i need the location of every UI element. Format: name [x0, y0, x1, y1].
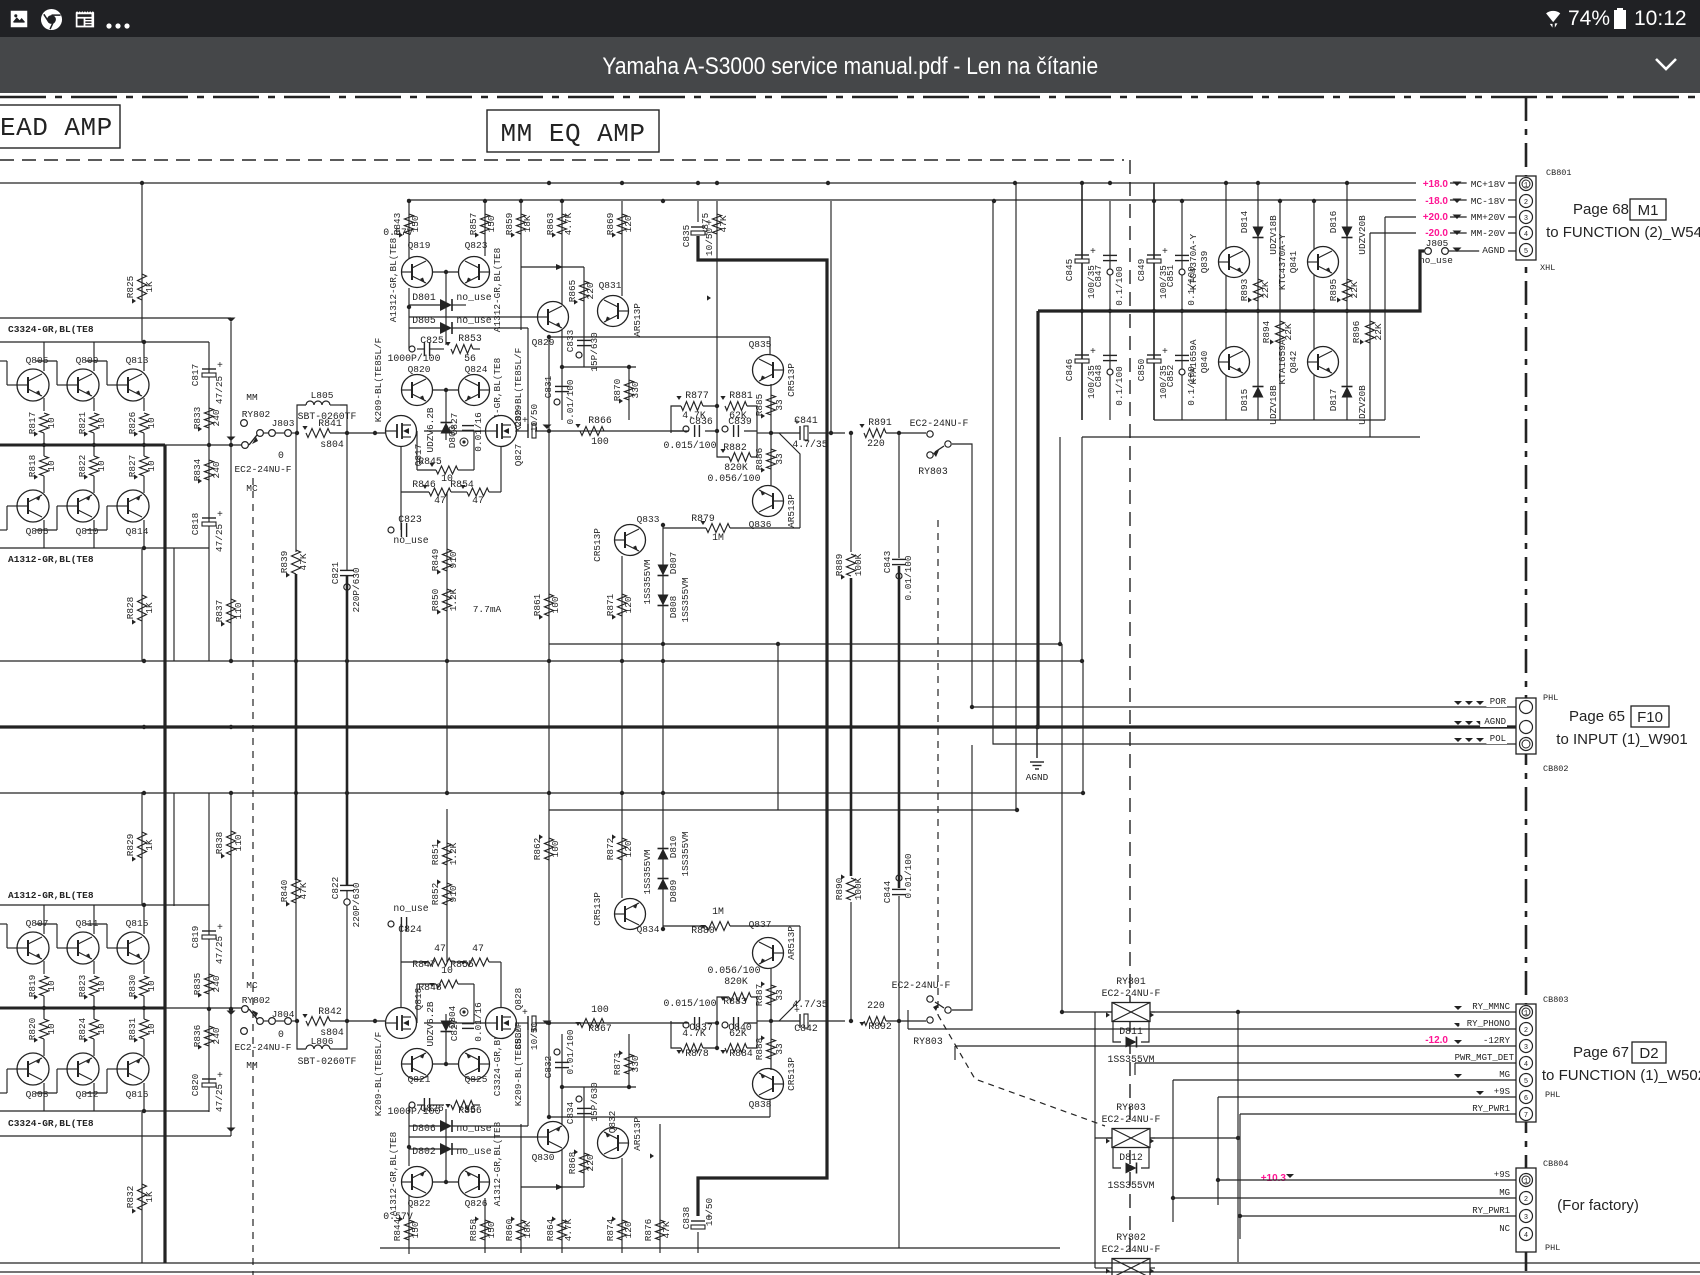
svg-text:C822: C822 — [330, 877, 341, 900]
svg-text:Q834: Q834 — [637, 924, 660, 935]
junction — [1224, 309, 1228, 313]
svg-text:56: 56 — [464, 1104, 476, 1115]
battery percent — [1568, 7, 1610, 31]
junction — [661, 199, 665, 203]
transistor Q806 — [17, 490, 49, 522]
svg-text:R859: R859 — [504, 213, 515, 236]
svg-text:D810: D810 — [668, 835, 679, 858]
svg-text:10/50: 10/50 — [529, 1022, 540, 1051]
svg-text:0.01/16: 0.01/16 — [473, 412, 484, 452]
svg-text:D817: D817 — [1328, 389, 1339, 412]
capacitor C839 — [733, 425, 735, 437]
left block top rail — [0, 341, 209, 343]
svg-text:RY_MMNC: RY_MMNC — [1472, 1002, 1510, 1012]
svg-text:R832: R832 — [125, 1186, 136, 1209]
svg-text:POL: POL — [1490, 734, 1506, 744]
svg-text:Q830: Q830 — [532, 1152, 555, 1163]
svg-text:no_use: no_use — [456, 1146, 491, 1157]
resistor R837 110 — [227, 599, 236, 623]
left block bottom rail — [0, 547, 209, 549]
svg-text:0.01/100: 0.01/100 — [903, 555, 914, 600]
svg-text:0.015/100: 0.015/100 — [664, 440, 717, 451]
svg-text:PHL: PHL — [1545, 1243, 1560, 1253]
svg-text:C849: C849 — [1136, 259, 1147, 282]
diode D806 no_use — [440, 1120, 452, 1132]
svg-text:Q825: Q825 — [465, 1074, 488, 1085]
svg-text:MM EQ AMP: MM EQ AMP — [501, 119, 646, 149]
CB801 pin 2 MC-18V — [1520, 195, 1533, 208]
junction — [547, 181, 551, 185]
resistor R893 22K — [1254, 279, 1263, 301]
wire x1082 lower — [1081, 437, 1083, 661]
transistor Q835 CR513P — [753, 355, 784, 386]
svg-text:47K: 47K — [661, 1221, 672, 1238]
transistor Q826 — [459, 1167, 490, 1198]
svg-text:4: 4 — [1524, 1232, 1528, 1240]
resistor R832 1K — [141, 1112, 143, 1263]
svg-text:R860: R860 — [504, 1218, 515, 1241]
svg-text:C839: C839 — [728, 416, 752, 427]
capacitor C844 0.01/100 — [898, 896, 900, 1021]
junction — [1312, 199, 1316, 203]
svg-text:C829: C829 — [513, 405, 524, 428]
svg-text:F10: F10 — [1637, 709, 1663, 726]
resistor R843 150 — [405, 214, 414, 234]
diode D809 1SS355VM — [662, 793, 664, 929]
svg-text:1.2K: 1.2K — [448, 842, 459, 865]
wire MM feed — [0, 317, 231, 319]
resistor R888 33 — [770, 968, 772, 1070]
svg-text:1K: 1K — [144, 1191, 155, 1203]
MM EQ AMP title box — [487, 110, 659, 152]
fet Q818 K209 — [386, 1008, 417, 1039]
svg-text:Page 67: Page 67 — [1573, 1044, 1629, 1061]
resistor R877 4.7K — [681, 402, 703, 411]
android status bar — [0, 0, 1700, 37]
junction — [826, 181, 830, 185]
wire MM feed lower — [0, 1135, 231, 1137]
connector CB804 shell — [1516, 1168, 1536, 1252]
svg-text:10: 10 — [96, 417, 107, 429]
svg-text:+: + — [217, 509, 223, 520]
news icon — [74, 9, 95, 30]
svg-text:1SS355VM: 1SS355VM — [642, 559, 653, 604]
svg-text:A1312-GR,BL(TE8: A1312-GR,BL(TE8 — [8, 890, 94, 901]
svg-text:A1312-GR,BL(TE8: A1312-GR,BL(TE8 — [8, 554, 94, 565]
overlay pin labels CB802 — [1486, 696, 1507, 707]
svg-text:2: 2 — [1524, 199, 1528, 207]
svg-text:C842: C842 — [794, 1023, 818, 1034]
wire x1016 — [1015, 183, 1017, 810]
zener D803 UDZV6.2B — [445, 390, 447, 440]
svg-text:A1312-GR,BL(TE8: A1312-GR,BL(TE8 — [492, 1121, 503, 1206]
junctions on y661 — [142, 659, 146, 663]
junction — [483, 199, 487, 203]
svg-text:Page 68: Page 68 — [1573, 201, 1629, 218]
wire y810 — [549, 809, 1017, 811]
wire diagonal from C841 row — [779, 433, 800, 528]
svg-text:100: 100 — [550, 840, 561, 857]
resistor R856 56 — [451, 1101, 473, 1110]
CB803 pin 5 MG — [1520, 1074, 1533, 1087]
svg-text:0.015/100: 0.015/100 — [664, 998, 717, 1009]
resistor R867 100 — [580, 1019, 604, 1028]
svg-text:10/50: 10/50 — [529, 404, 540, 433]
wire column 562 — [561, 1034, 563, 1253]
svg-text:1.2K: 1.2K — [448, 588, 459, 611]
svg-text:J803: J803 — [272, 418, 295, 429]
svg-text:A1312-GR,BL(TE8: A1312-GR,BL(TE8 — [492, 247, 503, 332]
transistor Q833 CR513P — [615, 525, 646, 556]
capacitor C841 4.7/35 — [799, 426, 801, 440]
junction — [1080, 181, 1084, 185]
resistor R849 910 — [446, 492, 448, 661]
svg-text:Q842: Q842 — [1288, 351, 1299, 374]
wire link to C829 row — [527, 328, 529, 431]
svg-text:-12.0: -12.0 — [1425, 1035, 1448, 1046]
svg-text:no_use: no_use — [456, 292, 491, 303]
svg-text:220: 220 — [585, 1154, 596, 1171]
svg-text:910: 910 — [448, 551, 459, 568]
CB804 pin 3 RY_PWR1 — [1520, 1210, 1533, 1223]
wire column x409 — [408, 200, 410, 260]
svg-text:RY_PWR1: RY_PWR1 — [1472, 1206, 1510, 1216]
svg-text:J804: J804 — [272, 1009, 295, 1020]
svg-text:RY802: RY802 — [242, 409, 271, 420]
CB803 pin 6 +9S — [1520, 1091, 1533, 1104]
capacitor C836 — [694, 425, 696, 437]
dashed link to RY803 — [938, 1015, 1105, 1126]
svg-text:220: 220 — [585, 282, 596, 299]
resistor R869 120 — [618, 214, 627, 234]
svg-text:+10.3: +10.3 — [1261, 1173, 1287, 1184]
transistor Q808 — [17, 1053, 49, 1085]
svg-text:C3324-GR,BL(TE8: C3324-GR,BL(TE8 — [8, 324, 94, 335]
transistor Q829 — [538, 302, 569, 333]
svg-text:RY802: RY802 — [242, 995, 271, 1006]
transistor Q816 — [117, 1053, 149, 1085]
resistor R818 10 — [40, 456, 49, 476]
svg-text:820K: 820K — [724, 976, 748, 987]
svg-text:0.01/100: 0.01/100 — [565, 379, 576, 424]
left column of block — [408, 1105, 410, 1166]
transistor Q839 KTC4370A-Y — [1225, 183, 1227, 420]
svg-text:R876: R876 — [643, 1218, 654, 1241]
svg-text:R885: R885 — [754, 393, 765, 416]
svg-text:C838: C838 — [681, 1206, 692, 1229]
svg-text:EC2-24NU-F: EC2-24NU-F — [1102, 988, 1161, 999]
svg-text:R882: R882 — [723, 442, 747, 453]
svg-text:1SS355VM: 1SS355VM — [680, 831, 691, 876]
svg-text:R857: R857 — [468, 213, 479, 236]
svg-text:to INPUT (1)_W901: to INPUT (1)_W901 — [1556, 731, 1687, 748]
svg-text:33: 33 — [774, 399, 785, 411]
transistor Q820 — [402, 375, 433, 406]
svg-text:4.7/35: 4.7/35 — [792, 999, 827, 1010]
capacitor C845 — [1075, 254, 1089, 256]
svg-text:D809: D809 — [668, 880, 679, 903]
svg-text:+18.0: +18.0 — [1423, 179, 1449, 190]
svg-text:C834: C834 — [565, 1101, 576, 1124]
thick wire from C835 — [698, 727, 827, 1216]
svg-text:AR513P: AR513P — [786, 926, 797, 960]
svg-text:C818: C818 — [190, 512, 201, 535]
svg-text:Q829: Q829 — [532, 337, 555, 348]
CB804 values — [1286, 1174, 1294, 1178]
HEAD AMP title box — [0, 105, 120, 148]
svg-text:R828: R828 — [125, 596, 136, 619]
resistor R876 47K — [656, 1220, 665, 1240]
svg-text:18K: 18K — [522, 1221, 533, 1238]
svg-text:C830: C830 — [513, 1026, 524, 1049]
svg-text:R889: R889 — [834, 554, 845, 577]
resistor R845 10 — [436, 466, 458, 474]
junction — [1278, 199, 1282, 203]
capacitor C827 0.01/16 — [462, 1023, 474, 1025]
svg-text:R835: R835 — [192, 972, 203, 995]
overflow dots — [105, 22, 131, 30]
svg-text:C824: C824 — [398, 924, 422, 935]
wire column C851 — [1181, 201, 1183, 420]
left block top rail — [0, 904, 209, 906]
wire column 660 — [659, 1124, 661, 1253]
svg-text:100: 100 — [591, 436, 609, 447]
svg-text:R877: R877 — [685, 390, 709, 401]
resistor R872 120 — [621, 793, 623, 898]
junction — [407, 199, 411, 203]
svg-text:R823: R823 — [77, 974, 88, 997]
junctions on AGND bus — [142, 725, 146, 729]
svg-text:+: + — [217, 922, 223, 933]
CB803 pin 1 RY_MMNC — [1520, 1006, 1533, 1019]
resistor R823 10 — [90, 976, 99, 996]
svg-text:RY803: RY803 — [913, 1036, 943, 1047]
base wires — [57, 384, 67, 386]
inter-block vertical wires — [446, 661, 448, 793]
svg-text:47: 47 — [434, 943, 446, 954]
wire link to C829 row — [527, 1023, 529, 1126]
junction — [1224, 181, 1228, 185]
svg-text:56: 56 — [464, 353, 476, 364]
zener D816 UDZV20B — [1346, 183, 1348, 420]
capacitor C838 10/50 — [697, 1232, 699, 1253]
svg-text:CB802: CB802 — [1543, 764, 1569, 774]
svg-text:1: 1 — [1524, 1010, 1528, 1018]
second lower rail — [1082, 436, 1420, 438]
svg-text:1000P/100: 1000P/100 — [388, 1106, 441, 1117]
svg-text:4.7K: 4.7K — [563, 212, 574, 235]
diode D812 1SS355VM — [1113, 1147, 1121, 1168]
svg-text:10/50: 10/50 — [704, 228, 715, 257]
svg-text:C823: C823 — [398, 514, 422, 525]
svg-text:0.01/100: 0.01/100 — [903, 853, 914, 898]
svg-text:+: + — [1090, 346, 1096, 357]
diode D805 no_use — [440, 322, 452, 334]
svg-text:Q838: Q838 — [749, 1099, 772, 1110]
svg-text:5: 5 — [1524, 1078, 1528, 1086]
capacitor C833 15P/630 — [577, 339, 591, 341]
svg-text:47: 47 — [434, 495, 446, 506]
svg-text:150: 150 — [486, 215, 497, 232]
resistor R885 33 — [770, 384, 772, 486]
svg-text:1SS355VM: 1SS355VM — [680, 577, 691, 622]
svg-text:A1312-GR,BL(TE8: A1312-GR,BL(TE8 — [388, 1131, 399, 1216]
svg-text:47/25: 47/25 — [214, 524, 225, 553]
capacitor C848 — [1103, 354, 1117, 356]
svg-text:R819: R819 — [27, 975, 38, 998]
resistor R890 100K — [850, 902, 852, 1021]
junction — [620, 181, 624, 185]
svg-text:820K: 820K — [724, 462, 748, 473]
fet Q817 K209 — [386, 416, 417, 447]
svg-text:0: 0 — [278, 450, 284, 461]
svg-text:R869: R869 — [605, 213, 616, 236]
svg-text:R870: R870 — [612, 378, 623, 401]
svg-text:R888: R888 — [754, 1037, 765, 1060]
svg-text:Q833: Q833 — [637, 514, 660, 525]
transistor Q805 — [17, 369, 49, 401]
transistor Q814 — [117, 490, 149, 522]
svg-text:CB804: CB804 — [1543, 1159, 1569, 1169]
CB803 wires — [1238, 1011, 1516, 1013]
svg-text:R834: R834 — [192, 458, 203, 481]
svg-text:RY_PWR1: RY_PWR1 — [1472, 1104, 1510, 1114]
resistor R870 330 — [628, 367, 630, 420]
svg-text:CR513P: CR513P — [592, 528, 603, 562]
svg-text:D812: D812 — [1119, 1152, 1143, 1163]
svg-text:100K: 100K — [853, 553, 864, 576]
svg-text:10: 10 — [96, 980, 107, 992]
left block bottom rail — [0, 1110, 209, 1112]
svg-text:to FUNCTION (2)_W54: to FUNCTION (2)_W54 — [1546, 224, 1700, 241]
svg-text:47: 47 — [472, 495, 484, 506]
capacitor C842 4.7/35 — [799, 1014, 801, 1028]
wire column 521 — [520, 1124, 522, 1253]
svg-text:0: 0 — [278, 1029, 284, 1040]
wire POL — [993, 201, 1516, 744]
capacitor C850 — [1147, 354, 1161, 356]
svg-text:R845: R845 — [418, 456, 442, 467]
svg-text:UDZV18B: UDZV18B — [1268, 385, 1279, 425]
resistor R873 330 — [628, 1034, 630, 1087]
wire R891 riser — [830, 201, 832, 433]
capacitor C849 — [1147, 254, 1161, 256]
svg-text:R820: R820 — [27, 1017, 38, 1040]
resistor R826 10 — [140, 413, 149, 433]
svg-text:+9S: +9S — [1494, 1170, 1510, 1180]
svg-text:6: 6 — [1524, 1095, 1528, 1103]
svg-text:330: 330 — [630, 1055, 641, 1072]
svg-text:+: + — [217, 1070, 223, 1081]
svg-text:SBT-0260TF: SBT-0260TF — [298, 411, 357, 422]
wire feedback h1 — [0, 660, 1082, 662]
svg-text:R864: R864 — [545, 1218, 556, 1241]
svg-text:POR: POR — [1490, 697, 1507, 707]
svg-text:D801: D801 — [412, 292, 436, 303]
svg-text:R865: R865 — [567, 279, 578, 302]
svg-text:Q819: Q819 — [408, 240, 431, 251]
svg-text:RY_PHONO: RY_PHONO — [1467, 1019, 1510, 1029]
capacitor C830 10/50 — [527, 1016, 529, 1030]
left block thick mid rail — [0, 1007, 165, 1010]
svg-text:R817: R817 — [27, 412, 38, 435]
svg-text:0.056/100: 0.056/100 — [708, 965, 761, 976]
capacitor C826 1000P/100 — [423, 1098, 425, 1112]
svg-text:C844: C844 — [882, 880, 893, 903]
svg-text:R822: R822 — [77, 455, 88, 478]
svg-text:120: 120 — [623, 1221, 634, 1238]
capacitor C824 no_use — [400, 924, 402, 962]
svg-text:33: 33 — [774, 453, 785, 465]
svg-text:1SS355VM: 1SS355VM — [1107, 1180, 1154, 1191]
resistor R879 1M — [706, 524, 730, 533]
svg-text:R847: R847 — [412, 959, 436, 970]
resistor R881 62K — [725, 402, 747, 411]
svg-text:no_use: no_use — [393, 535, 428, 546]
resistor R851 1.2K — [443, 843, 452, 865]
wire POR — [972, 706, 1516, 708]
resistor R831 10 — [140, 1019, 149, 1039]
junction — [715, 181, 719, 185]
wire R837 column — [230, 322, 232, 661]
svg-text:KTA1659A: KTA1659A — [1277, 339, 1288, 384]
left block thick mid rail — [0, 444, 165, 447]
svg-text:R836: R836 — [192, 1024, 203, 1047]
svg-text:1SS355VM: 1SS355VM — [642, 849, 653, 894]
svg-text:10: 10 — [46, 460, 57, 472]
svg-text:D815: D815 — [1239, 388, 1250, 411]
svg-text:R824: R824 — [77, 1017, 88, 1040]
transistor Q821 — [402, 1049, 433, 1080]
box wires around R877 group — [671, 1023, 689, 1048]
svg-text:C827: C827 — [449, 413, 460, 436]
svg-text:A1312-GR,BL(TE8: A1312-GR,BL(TE8 — [388, 237, 399, 322]
box wires around R877 group — [671, 406, 689, 431]
resistor R841 s804 — [291, 432, 297, 434]
svg-text:RY803: RY803 — [918, 466, 948, 477]
svg-text:220: 220 — [867, 1000, 885, 1011]
capacitor C837 — [694, 1017, 696, 1029]
resistor R871 120 — [621, 556, 623, 661]
svg-text:10: 10 — [146, 460, 157, 472]
resistor R854 47 — [467, 488, 489, 496]
svg-text:1: 1 — [1524, 1178, 1528, 1186]
svg-text:L806: L806 — [311, 1036, 334, 1047]
resistor R886 33 — [767, 449, 776, 469]
wire Q829 base row — [409, 1136, 537, 1138]
resistor R857 150 — [481, 214, 490, 234]
diode D808 1SS355VM — [658, 595, 669, 606]
transistor Q819 — [402, 257, 433, 288]
resistor R882 820K — [729, 453, 751, 462]
svg-text:+20.0: +20.0 — [1423, 212, 1449, 223]
svg-text:1K: 1K — [144, 281, 155, 293]
svg-text:no_use: no_use — [393, 903, 428, 914]
fet Q828 K209 — [486, 1008, 517, 1039]
CB803 pin labels — [1466, 1000, 1511, 1011]
CB803 pin 7 RY_PWR1 — [1520, 1108, 1533, 1121]
connector CB803 shell — [1516, 1004, 1536, 1122]
svg-text:4: 4 — [1524, 231, 1528, 239]
svg-text:D806: D806 — [412, 1123, 436, 1134]
resistor R880 1M — [706, 922, 730, 931]
svg-text:R846: R846 — [412, 479, 436, 490]
diode D801 no_use — [445, 272, 447, 345]
svg-text:150: 150 — [486, 1221, 497, 1238]
CB802 pin POL — [1520, 738, 1533, 751]
svg-text:KTA1659A: KTA1659A — [1188, 339, 1199, 384]
resistor R874 120 — [618, 1220, 627, 1240]
